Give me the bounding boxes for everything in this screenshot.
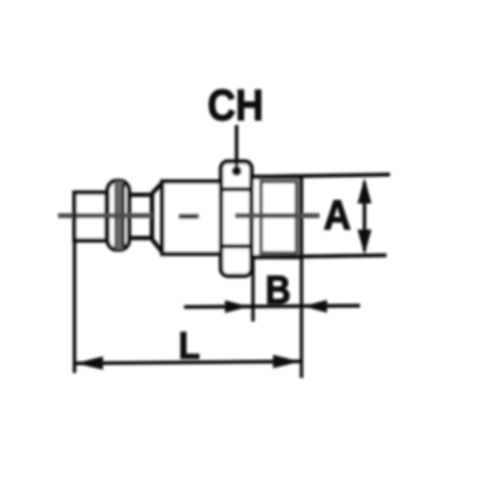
L left extension line (tip left edge continued) bbox=[73, 193, 77, 373]
centerline left segment bbox=[58, 213, 152, 218]
nut facet line lower bbox=[221, 244, 252, 248]
collar band right edge bbox=[122, 184, 125, 247]
dimension L arrowhead left-pointing bbox=[76, 356, 104, 369]
CH leader dot bbox=[232, 166, 242, 176]
dimension B line bbox=[184, 306, 360, 307]
waist groove top edge bbox=[128, 193, 152, 197]
dimension B arrowhead right-pointing bbox=[225, 300, 249, 313]
A top extension line bbox=[253, 175, 390, 177]
thread section outer bbox=[252, 177, 302, 257]
dimension L arrowhead right-pointing bbox=[273, 355, 300, 368]
B left extension line bbox=[251, 257, 254, 322]
dimension L line bbox=[76, 361, 300, 363]
svg-text:A: A bbox=[324, 191, 352, 238]
A bottom extension line bbox=[252, 255, 387, 257]
waist groove bottom edge bbox=[128, 236, 152, 240]
hex nut bbox=[221, 162, 252, 276]
svg-text:L: L bbox=[179, 326, 201, 368]
plug tip cylinder bbox=[75, 193, 107, 241]
centerline right segment bbox=[235, 213, 320, 218]
dimension B arrowhead left-pointing bbox=[303, 300, 327, 313]
CH leader line bbox=[235, 125, 239, 168]
main body bbox=[162, 182, 222, 254]
svg-text:B: B bbox=[265, 269, 291, 313]
cone flare bbox=[152, 182, 163, 253]
svg-text:CH: CH bbox=[208, 81, 264, 130]
dimension A arrowhead up bbox=[358, 178, 372, 204]
thread minor diameter inner rect bbox=[261, 182, 297, 254]
collar bead bbox=[108, 181, 130, 250]
dimension A arrowhead down bbox=[358, 230, 372, 255]
collar band left edge bbox=[114, 184, 116, 247]
collar middle gray band bbox=[116, 182, 123, 250]
dimension A line bbox=[363, 182, 367, 251]
nut facet line upper bbox=[221, 187, 252, 191]
B right extension line (shared with L) bbox=[300, 257, 303, 378]
centerline dash in body bbox=[179, 214, 200, 219]
